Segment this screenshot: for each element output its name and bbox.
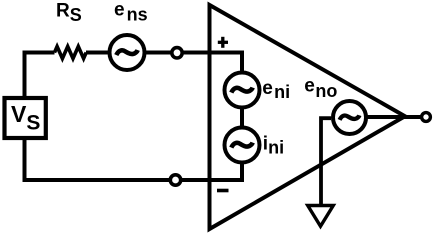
wire: i_ni down and left (- input): [182, 163, 242, 181]
op-amp U1 triangle: [210, 5, 406, 229]
wire: VS top to resistor: [25, 53, 55, 99]
wire: terminal left to VS bottom: [25, 138, 171, 180]
plus input marker: [218, 37, 228, 48]
wire: e_ns to input terminal: [145, 51, 172, 55]
node: output terminal: [422, 113, 431, 122]
wire: vertical to e_ni: [240, 53, 244, 74]
ground: [308, 206, 334, 227]
svg-text:RS: RS: [56, 1, 82, 26]
wire: e_no to output terminal: [366, 115, 421, 119]
wire: e_no left lead to ground: [321, 118, 331, 205]
minus input marker: [217, 189, 229, 193]
node: - input terminal: [170, 175, 180, 185]
source e_no circle: [333, 101, 366, 134]
wire: e_ni to i_ni: [240, 108, 244, 129]
wire: resistor to e_ns: [86, 51, 110, 55]
source e_ni circle: [225, 73, 260, 108]
node: + input terminal: [172, 48, 182, 58]
resistor RS zigzag: [55, 47, 87, 59]
source e_ns circle: [110, 35, 145, 70]
source VS box: [5, 98, 46, 138]
source i_ni circle: [225, 128, 260, 163]
svg-text:eni: eni: [262, 78, 290, 102]
svg-text:ini: ini: [263, 133, 284, 157]
wire: terminal into op-amp (+ input): [183, 51, 245, 55]
